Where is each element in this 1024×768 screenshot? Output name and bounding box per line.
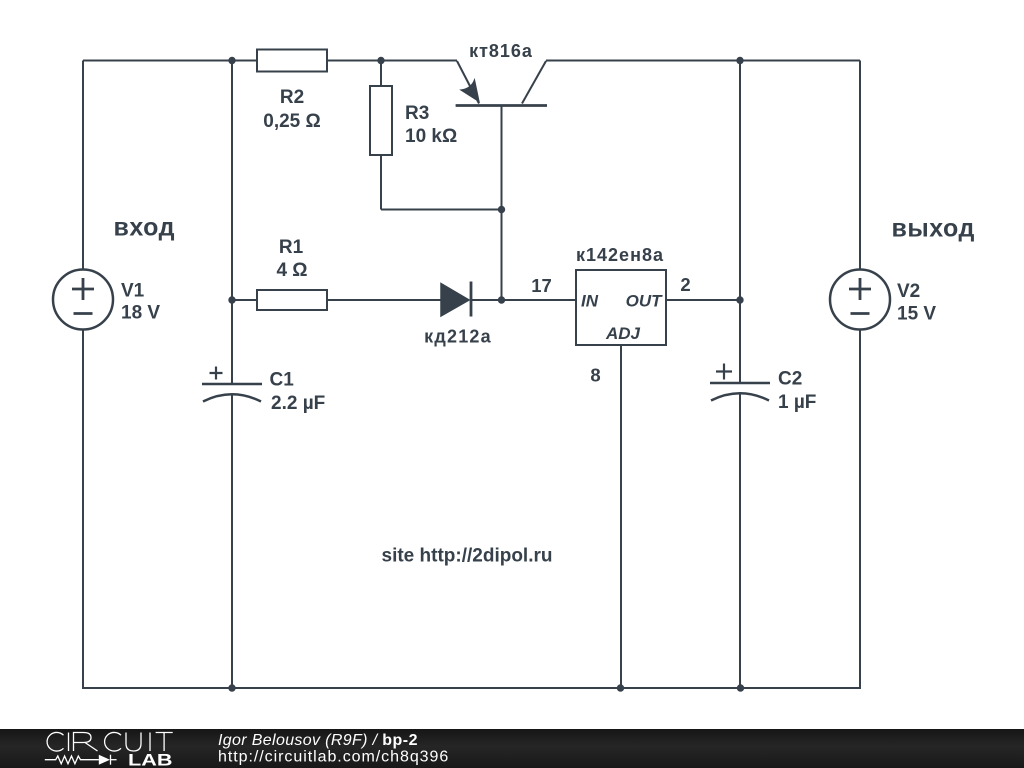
svg-text:1 µF: 1 µF [778,392,816,413]
svg-text:10 kΩ: 10 kΩ [405,126,457,147]
svg-text:18 V: 18 V [121,303,160,324]
svg-text:2.2 µF: 2.2 µF [271,393,325,414]
svg-text:ADJ: ADJ [605,324,641,343]
svg-text:http://circuitlab.com/ch8q396: http://circuitlab.com/ch8q396 [218,749,449,766]
svg-text:0,25 Ω: 0,25 Ω [263,111,321,132]
svg-text:Igor Belousov (R9F) / bp-2: Igor Belousov (R9F) / bp-2 [218,732,418,749]
svg-text:R3: R3 [405,103,429,124]
svg-text:C1: C1 [270,370,295,391]
svg-text:17: 17 [531,275,552,296]
svg-text:V1: V1 [121,281,145,302]
svg-text:4 Ω: 4 Ω [276,260,307,281]
svg-text:site http://2dipol.ru: site http://2dipol.ru [382,546,553,567]
svg-text:C2: C2 [778,369,802,390]
svg-text:кт816а: кт816а [469,41,533,61]
svg-text:8: 8 [590,365,600,386]
svg-text:выход: выход [892,215,975,243]
svg-text:кд212а: кд212а [424,327,492,347]
svg-text:15 V: 15 V [897,304,936,325]
svg-text:R2: R2 [280,87,304,108]
svg-text:OUT: OUT [626,292,664,311]
svg-text:R1: R1 [279,237,304,258]
svg-text:к142ен8а: к142ен8а [576,245,664,265]
svg-text:LAB: LAB [128,751,173,768]
svg-text:2: 2 [680,274,690,295]
svg-text:V2: V2 [897,281,920,302]
svg-text:IN: IN [581,292,599,311]
svg-text:вход: вход [114,214,175,242]
